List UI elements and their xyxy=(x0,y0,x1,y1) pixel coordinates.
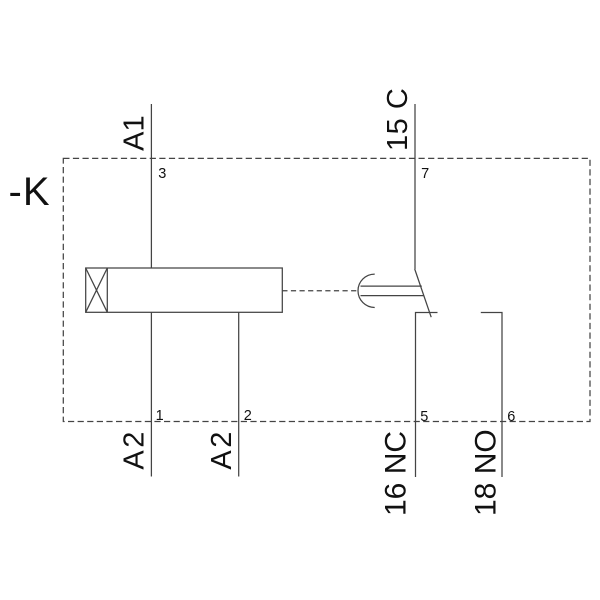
actuator arc xyxy=(358,274,375,307)
coil X diagonal 1 xyxy=(86,268,108,312)
svg-text:3: 3 xyxy=(158,166,166,182)
coil X-box divider xyxy=(106,268,108,312)
svg-text:6: 6 xyxy=(507,409,515,425)
NC fixed contact seat xyxy=(416,313,438,478)
svg-text:2: 2 xyxy=(244,408,252,424)
mechanical link dashed line xyxy=(282,290,357,292)
coil K body xyxy=(86,268,283,312)
actuator upper rod xyxy=(361,285,422,287)
svg-text:15 C: 15 C xyxy=(382,88,414,151)
svg-text:A1: A1 xyxy=(119,115,151,150)
relay boundary dashed box xyxy=(63,158,590,421)
svg-text:A2: A2 xyxy=(206,429,238,469)
svg-text:5: 5 xyxy=(420,409,428,425)
wire A2 terminal (pin 2) xyxy=(238,313,240,477)
wire A1 terminal (pin 3) xyxy=(150,104,152,268)
svg-text:A2: A2 xyxy=(119,429,151,469)
wire C terminal (pin 7) xyxy=(414,104,416,269)
NO fixed contact seat xyxy=(481,313,502,478)
wire A2 terminal (pin 1) xyxy=(150,313,152,477)
svg-text:16 NC: 16 NC xyxy=(380,431,413,516)
svg-text:7: 7 xyxy=(421,166,429,182)
svg-text:-K: -K xyxy=(9,170,51,214)
actuator lower rod xyxy=(361,295,424,297)
coil X diagonal 2 xyxy=(86,268,108,312)
svg-text:1: 1 xyxy=(156,408,164,424)
svg-text:18 NO: 18 NO xyxy=(469,429,502,516)
contact blade xyxy=(415,269,432,317)
